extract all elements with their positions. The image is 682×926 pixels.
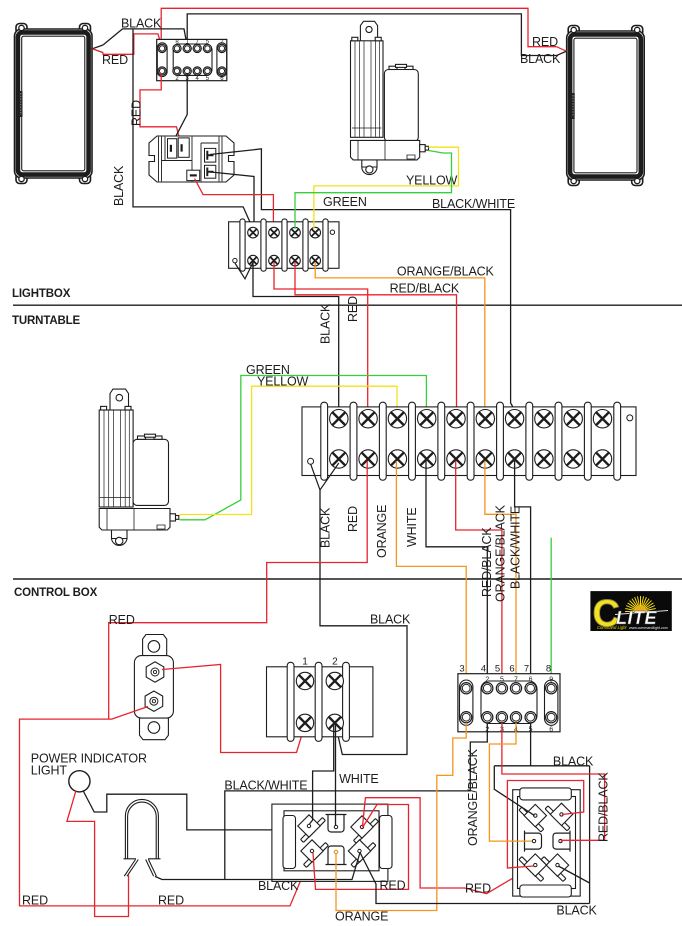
terminal strip TB2 screw col8 bottom (535, 450, 553, 468)
wire black/white TB2 col7 to socket X2 pin7 (515, 461, 531, 683)
svg-text:YELLOW: YELLOW (257, 374, 309, 388)
wire black TB2 col1 to TB3 terminal 2 (320, 490, 407, 755)
switch S2 terminal R2R (553, 831, 570, 852)
terminal strip TB2 screw col4 top (418, 410, 436, 428)
terminal strip TB2 barrier 9 (555, 402, 562, 480)
terminal strip TB2 screw col2 top (359, 410, 377, 428)
svg-text:2: 2 (332, 657, 338, 668)
svg-text:RED: RED (346, 506, 360, 532)
terminal strip TB2 mounting holes (308, 458, 314, 464)
svg-text:3: 3 (459, 664, 464, 675)
terminal strip TB2 barrier 8 (526, 402, 533, 480)
relay socket X1 body (157, 39, 227, 80)
relay socket X1 pin 8 (173, 67, 181, 75)
linear actuator M1 (351, 21, 429, 174)
svg-text:TURNTABLE: TURNTABLE (12, 315, 81, 327)
relay socket X1 pin 10 (193, 67, 201, 75)
wire red relay to TB1 terminal 2 (195, 179, 274, 230)
svg-text:BLACK/WHITE: BLACK/WHITE (432, 197, 515, 211)
wire black from left lightbox to socket pin (103, 29, 187, 46)
TB2 ground vee (311, 463, 339, 490)
relay socket X2 pin bottom 6 (546, 712, 557, 723)
switch S1 right tab (380, 816, 393, 869)
relay K1 terminal 3 (205, 148, 216, 162)
svg-text:GREEN: GREEN (323, 195, 367, 209)
terminal strip TB2 screw col7 top (505, 410, 523, 428)
wire yellow actuator M1 to TB1 col4 (314, 147, 459, 229)
terminal strip TB3 barrier 3 (343, 662, 350, 741)
svg-text:RED: RED (465, 882, 491, 896)
terminal strip TB2 screw col9 bottom (564, 450, 582, 468)
relay socket X2 left pin slot (460, 680, 473, 725)
svg-text:ORANGE/BLACK: ORANGE/BLACK (397, 265, 495, 279)
connector wedge at left lightbox (92, 45, 103, 53)
relay socket X1 pin numbers (175, 39, 224, 82)
svg-text:BLACK: BLACK (319, 507, 333, 548)
svg-text:WHITE: WHITE (405, 507, 419, 547)
svg-text:BLACK: BLACK (121, 17, 162, 31)
wire black relay to TB1 terminal 1 (211, 172, 254, 229)
wire black TB1-1 to TB2 col1 (253, 262, 339, 416)
wire red TB1-2 to TB2 col2 (274, 262, 368, 416)
terminal strip TB1 screw 3 bottom (290, 255, 301, 266)
terminal strip TB3 barrier 2 (315, 662, 322, 741)
terminal strip TB2 screw col9 top (564, 410, 582, 428)
wire orange/black socket X2 pin6 to S2 R2L (489, 723, 532, 841)
wire red S1 TR to S1 BL crossover (313, 805, 409, 890)
wire red/black socket X2 pin5 to S2 R2R (502, 723, 605, 841)
wire green actuator M2 to TB2 col4 (180, 376, 427, 520)
terminal strip TB3 body (267, 667, 373, 737)
relay socket X2 centre slot (481, 681, 537, 724)
svg-text:8: 8 (546, 664, 551, 675)
relay socket X2 pin bottom 5 (525, 712, 536, 723)
section divider line turntable/control box (13, 578, 682, 580)
relay socket X1 pin 12 (218, 67, 226, 75)
svg-text:BLACK/WHITE: BLACK/WHITE (224, 779, 307, 793)
section divider line lightbox/turntable (13, 304, 682, 306)
terminal strip TB2 screw col3 top (388, 410, 406, 428)
TB1 ground vee (235, 263, 253, 279)
terminal strip TB2 barrier 10 (584, 402, 591, 480)
relay socket X1 pin 2 (173, 44, 181, 52)
svg-text:RED/BLACK: RED/BLACK (390, 281, 460, 295)
svg-text:ORANGE/BLACK: ORANGE/BLACK (466, 748, 480, 846)
terminal strip TB3 screw 2 top (326, 672, 343, 689)
relay socket X2 right pin slot (545, 680, 558, 725)
terminal strip TB2 barrier 3 (379, 402, 386, 480)
wire yellow actuator M2 to TB2 col3 (180, 386, 398, 514)
terminal strip TB2 screw col5 bottom (447, 450, 465, 468)
switch S2 terminal R3R (541, 854, 569, 882)
wire red fuse F1 to TB3 terminal 1 (162, 665, 305, 753)
svg-text:5: 5 (495, 664, 500, 675)
switch S2 terminal R1R (545, 803, 573, 831)
wire black/white socket X2 pin4 to LED junction (225, 723, 488, 880)
relay K1 terminal 5 (187, 170, 200, 180)
svg-text:BLACK: BLACK (520, 52, 561, 66)
fuse F1 bottom stud (145, 691, 163, 711)
wire red/black TB2 col5 to socket X2 pin5 (456, 461, 502, 683)
relay K1 terminal 2 (178, 138, 189, 157)
relay socket X1 centre slot (173, 44, 212, 75)
svg-text:RED: RED (532, 35, 558, 49)
wire orange/black TB2 col6 to socket X2 pin6 (485, 461, 516, 683)
wire red fuse F1 to supply rail (left) (20, 707, 313, 906)
wire black relay to BLACK/WHITE run (to TB2 col7) (210, 149, 515, 416)
terminal strip TB1 screw 1 bottom (248, 255, 259, 266)
svg-text:7: 7 (524, 664, 529, 675)
switch S1 terminal BR (348, 840, 376, 868)
svg-text:6: 6 (529, 676, 533, 683)
switch S2 bottom tab (520, 885, 572, 897)
switch S1 mounting plate (272, 804, 388, 881)
terminal strip TB3 barrier 1 (287, 662, 294, 741)
terminal strip TB1 mounting holes (233, 258, 237, 262)
switch S1 left tab (283, 816, 296, 869)
svg-text:6: 6 (509, 664, 514, 675)
terminal strip TB2 barrier 1 (321, 402, 328, 480)
linear actuator M2 (99, 389, 179, 545)
terminal strip TB2 barrier 11 (614, 402, 621, 480)
terminal strip TB2 screw col10 bottom (593, 450, 611, 468)
switch S1 terminal TM (326, 815, 347, 833)
terminal strip TB3 screw 1 bottom (296, 714, 313, 731)
relay socket X1 left pin slot (157, 43, 167, 77)
wire red S1 TR to S2 feed (363, 798, 533, 894)
svg-text:RED: RED (109, 613, 135, 627)
wire orange S1 BM to socket X2 pin3 (336, 723, 466, 911)
svg-text:RED: RED (346, 296, 360, 322)
relay socket X2 pin top 4 (510, 683, 521, 694)
relay socket X1 pin 1 (158, 44, 166, 52)
switch S2 terminal R2L (525, 831, 542, 852)
fuse holder F1 (134, 635, 173, 740)
terminal strip TB1 screw 2 bottom (269, 255, 280, 266)
lightbox fixture L1 (left) (15, 24, 93, 184)
wire white TB3-2 to S1 TM (335, 725, 337, 827)
wire red power indicator to LED anode (67, 791, 129, 917)
svg-text:BLACK/WHITE: BLACK/WHITE (509, 506, 523, 589)
svg-text:ORANGE: ORANGE (375, 505, 389, 558)
terminal strip TB1 barrier 3 (282, 219, 287, 271)
relay socket X1 pin 9 (183, 67, 191, 75)
terminal strip TB1 body (229, 222, 339, 268)
svg-text:RED: RED (380, 879, 406, 893)
relay socket X2 body (458, 674, 560, 732)
relay socket X1 pin 11 (203, 67, 211, 75)
wire white TB2 col4 to socket X2 pin4 (426, 461, 487, 683)
svg-text:BLACK: BLACK (556, 904, 597, 918)
switch S2 body (518, 797, 576, 889)
terminal strip TB2 screw col1 bottom (330, 450, 348, 468)
fuse F1 top stud (146, 662, 164, 682)
svg-text:7: 7 (514, 676, 518, 683)
svg-text:Command Light: Command Light (597, 625, 627, 630)
wire red S2 crossover R1R-R3L (507, 781, 583, 869)
svg-text:BLACK: BLACK (370, 613, 411, 627)
relay socket X1 pin 7 (158, 67, 166, 75)
wire orange/black TB1-4 to TB2 col6 (315, 262, 485, 416)
switch S1 terminal BL (301, 840, 329, 868)
terminal strip TB1 screw 2 top (269, 227, 280, 238)
svg-text:6: 6 (549, 727, 553, 734)
svg-text:BLACK: BLACK (258, 879, 299, 893)
relay socket X2 pin bottom 4 (510, 712, 521, 723)
relay socket X2 pin bottom 1 (461, 712, 472, 723)
wire red socket pin to relay terminal (140, 73, 181, 146)
switch S2 mounting plate (513, 790, 581, 896)
terminal strip TB2 barrier 6 (467, 402, 474, 480)
terminal strip TB2 screw col7 bottom (505, 450, 523, 468)
relay socket X2 pin top 3 (496, 683, 507, 694)
relay socket X1 pin 3 (183, 44, 191, 52)
wire green to socket X2 pin8 (550, 538, 552, 683)
svg-text:ORANGE/BLACK: ORANGE/BLACK (494, 504, 508, 602)
terminal strip TB1 barrier 5 (323, 219, 328, 271)
wire red/black TB1-3 to TB2 col5 (295, 262, 457, 416)
svg-text:YELLOW: YELLOW (406, 174, 458, 188)
terminal strip TB2 barrier 5 (438, 402, 445, 480)
wire black LED cathode rail to S1 BR (155, 853, 360, 880)
svg-text:9: 9 (549, 676, 553, 683)
relay socket X1 pin 5 (203, 44, 211, 52)
wire green actuator M1 to TB1 col3 (295, 151, 452, 230)
switch S1 body (284, 811, 379, 871)
power indicator lamp DS1 (69, 771, 90, 792)
svg-text:BLACK: BLACK (319, 303, 333, 344)
terminal strip TB2 barrier 7 (497, 402, 504, 480)
wire black socket pin to relay terminal (171, 73, 187, 146)
relay socket X2 pin top 5 (525, 683, 536, 694)
terminal strip TB1 barrier 4 (303, 219, 308, 271)
svg-text:RED: RED (130, 100, 144, 126)
relay socket X2 pin top 6 (546, 683, 557, 694)
terminal strip TB1 screw 4 bottom (310, 255, 321, 266)
svg-text:www.commandlight.com: www.commandlight.com (629, 626, 668, 630)
relay K1 terminal 4 (205, 165, 216, 178)
relay socket X1 pin 4 (193, 44, 201, 52)
terminal strip TB2 barrier 4 (409, 402, 416, 480)
switch S2 terminal R1L (519, 804, 547, 832)
relay socket X2 pin top 1 (461, 683, 472, 694)
terminal strip TB2 screw col2 bottom (359, 450, 377, 468)
terminal strip TB2 screw col3 bottom (388, 450, 406, 468)
terminal strip TB1 screw 3 top (290, 227, 301, 238)
svg-text:ORANGE: ORANGE (335, 910, 388, 924)
switch S2 terminal R3L (519, 854, 547, 882)
svg-text:1: 1 (302, 657, 308, 668)
svg-text:LIGHT: LIGHT (31, 764, 68, 778)
wire black branch down to terminal strip TB1 (133, 29, 253, 229)
svg-text:4: 4 (481, 664, 486, 675)
terminal strip TB2 body (302, 407, 636, 476)
switch S1 terminal TR (351, 816, 379, 844)
svg-text:LIGHTBOX: LIGHTBOX (12, 288, 71, 300)
svg-text:RED: RED (22, 894, 48, 908)
wire red supply rail to right lightbox (161, 8, 556, 46)
switch S1 terminal TL (298, 815, 326, 843)
svg-text:RED: RED (158, 894, 184, 908)
wire black TB3-2 to S1 TL (310, 725, 334, 825)
connector wedge at right lightbox (557, 47, 567, 56)
wire black power indicator to switch S1 (83, 791, 272, 830)
svg-text:BLACK: BLACK (112, 165, 126, 206)
relay socket X2 pin bottom 2 (482, 712, 493, 723)
terminal strip TB3 screw 1 top (296, 672, 313, 689)
relay socket X2 terminal numbers (459, 664, 551, 675)
wire black socket X2 pin7 to S2 terminals (530, 723, 532, 766)
relay socket X2 pin bottom 3 (496, 712, 507, 723)
lightbox fixture L2 (right) (567, 26, 645, 186)
svg-text:WHITE: WHITE (339, 772, 379, 786)
terminal strip TB2 screw col6 bottom (476, 450, 494, 468)
terminal strip TB2 screw col1 top (330, 410, 348, 428)
svg-text:CONTROL BOX: CONTROL BOX (14, 587, 98, 599)
relay socket X2 pin top 2 (482, 683, 493, 694)
svg-text:BLACK: BLACK (553, 755, 594, 769)
terminal strip TB1 barrier 2 (261, 219, 266, 271)
svg-text:RED/BLACK: RED/BLACK (597, 772, 611, 842)
Command Light logo (590, 591, 671, 635)
terminal strip TB2 screw col6 top (476, 410, 494, 428)
wire black rail to right lightbox (187, 14, 556, 56)
svg-text:2: 2 (485, 676, 489, 683)
LED D1 (124, 799, 161, 876)
terminal strip TB2 barrier 2 (350, 402, 357, 480)
svg-text:RED/BLACK: RED/BLACK (480, 527, 494, 597)
terminal strip TB3 screw 2 bottom (326, 714, 343, 731)
wire red from left lightbox to socket pin (103, 34, 161, 54)
terminal strip TB1 screw 1 top (248, 227, 259, 238)
relay socket X1 pin 6 (218, 44, 226, 52)
terminal strip TB2 screw col4 bottom (418, 450, 436, 468)
terminal strip TB1 barrier 1 (240, 219, 245, 271)
terminal strip TB1 screw 4 top (310, 227, 321, 238)
switch S1 terminal BM (326, 846, 347, 865)
relay K1 body (149, 136, 234, 182)
wire black S1 BR to S2 link (360, 853, 590, 904)
terminal strip TB2 screw col8 top (535, 410, 553, 428)
wire orange TB2 col3 to socket X2 pin3 (396, 461, 466, 683)
relay K1 terminal 1 (168, 139, 177, 158)
terminal strip TB2 screw col10 top (593, 410, 611, 428)
terminal strip TB2 screw col5 top (447, 410, 465, 428)
svg-text:RED: RED (102, 53, 128, 67)
switch S2 top tab (520, 788, 572, 800)
svg-text:5: 5 (500, 676, 504, 683)
wire red TB2 col2 to fuse F1 feed (109, 461, 368, 719)
relay socket X1 right pin slot (217, 43, 227, 77)
